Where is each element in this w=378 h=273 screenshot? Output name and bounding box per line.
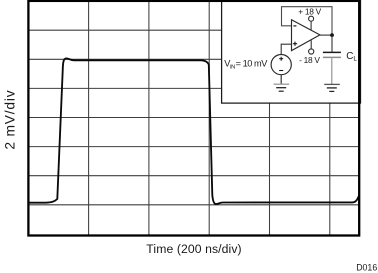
svg-text:2 mV/div: 2 mV/div (3, 90, 18, 150)
op-amp inverting input minus sign (293, 25, 296, 27)
wire VIN source to non-inverting input (281, 44, 291, 54)
wire VIN source to ground (280, 75, 282, 84)
wire +18V terminal to op-amp (310, 21, 312, 30)
wire capacitor to ground (331, 58, 333, 84)
capacitor CL top plate (323, 51, 341, 53)
grid horizontal lines (28, 30, 359, 205)
svg-text:D016: D016 (356, 263, 377, 273)
source plus sign (279, 57, 283, 61)
wire output node to capacitor (331, 35, 333, 52)
wire op-amp output (320, 34, 332, 36)
waveform trace (28, 58, 359, 204)
node output dot (330, 33, 334, 37)
source minus sign (279, 70, 283, 72)
op-amp non-inverting input plus sign (293, 42, 297, 46)
op-amp U1 triangle (292, 20, 320, 51)
+18V supply terminal circle (309, 16, 314, 21)
grid vertical lines (89, 1, 330, 235)
voltage source VIN circle (271, 55, 291, 75)
svg-text:+ 18 V: + 18 V (298, 6, 321, 16)
plot outer border (28, 1, 359, 236)
capacitor CL bottom plate (323, 56, 341, 58)
ground under VIN source (274, 84, 290, 91)
-18V supply terminal circle (309, 49, 314, 54)
feedback wire (output to inverting input) (282, 7, 333, 35)
wire -18V terminal to op-amp (310, 40, 312, 49)
ground under capacitor (324, 84, 340, 91)
svg-text:Time (200 ns/div): Time (200 ns/div) (146, 242, 241, 256)
inset schematic white box (222, 0, 361, 103)
svg-text:- 18 V: - 18 V (299, 55, 320, 65)
